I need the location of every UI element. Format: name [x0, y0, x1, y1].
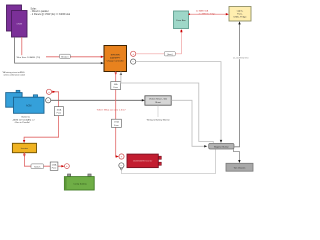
arrow down into gold inverter top	[23, 140, 25, 143]
svg-text:Batteries: Batteries	[22, 116, 32, 119]
svg-text:- AGM 12V (140Ah) x 2: - AGM 12V (140Ah) x 2	[12, 118, 35, 121]
svg-text:Negative Busbar: Negative Busbar	[214, 145, 229, 148]
arrow up into loads box bottom	[238, 21, 240, 24]
svg-text:Van Chassis: Van Chassis	[234, 167, 246, 169]
svg-text:170W: 170W	[16, 24, 23, 26]
svg-text:120A: 120A	[52, 164, 57, 167]
terminal circle inverter -	[119, 163, 124, 168]
svg-text:Fans,: Fans,	[237, 13, 243, 15]
solar panel PV2 (back)	[7, 5, 22, 31]
svg-text:- Run in Parallel: - Run in Parallel	[14, 121, 30, 124]
svg-text:Victron Smart - 500: Victron Smart - 500	[149, 98, 168, 101]
svg-text:TODO: What size wire is this?: TODO: What size wire is this?	[97, 109, 127, 112]
arrow into loads box	[226, 13, 229, 15]
label: wire gauge on loads return	[230, 56, 253, 60]
wire fuse box to loads (red)	[189, 13, 227, 15]
note: AWG annotation	[2, 71, 26, 77]
svg-text:Lights,: Lights,	[237, 9, 244, 12]
solar panel PV1 (front)	[12, 11, 28, 38]
svg-text:Shunt: Shunt	[155, 101, 161, 104]
arrow into busbar left	[204, 145, 207, 147]
wire BAT- controller to busbar (light gray)	[121, 72, 213, 143]
note: solar panel annotation	[31, 7, 71, 16]
svg-text:Solar:: Solar:	[31, 7, 37, 10]
svg-text:Charge Controller: Charge Controller	[107, 60, 125, 63]
negative busbar (gray rounded)	[209, 143, 234, 149]
AGM battery B2 (back, blue)	[6, 90, 22, 107]
1500W inverter (dark red box)	[127, 154, 161, 168]
smart shunt (gray box)	[145, 96, 171, 105]
arrow down from inverter - terminal	[120, 168, 122, 171]
svg-text:Fuse Box: Fuse Box	[176, 20, 186, 22]
wire PV+ (red, panel to charge controller)	[22, 37, 102, 57]
camp battery (green)	[64, 174, 94, 190]
svg-text:+: +	[121, 155, 123, 159]
svg-text:+: +	[48, 90, 50, 94]
svg-text:AGM: AGM	[26, 104, 31, 107]
wire loads return to busbar (gray)	[234, 24, 239, 147]
arrow into controller PV-	[101, 62, 104, 64]
svg-text:EPEVER: EPEVER	[111, 55, 120, 57]
svg-text:100A: 100A	[57, 108, 62, 111]
arrow down into busbar top	[220, 140, 222, 143]
arrow BAT- up into controller bottom	[120, 72, 122, 75]
svg-text:USBs, Fridge: USBs, Fridge	[233, 15, 247, 18]
svg-text:40A MPPT: 40A MPPT	[110, 57, 121, 60]
loads box (yellow): lights fans usbs fridge	[229, 7, 251, 22]
svg-text:+: +	[66, 164, 68, 168]
svg-text:* All wiring sizes in AWG: * All wiring sizes in AWG	[2, 71, 25, 74]
fuse box F1 on BAT+ wire	[111, 82, 121, 90]
arrow into camp battery +	[61, 165, 64, 167]
wire LOAD+ (red, to fuse box)	[136, 30, 182, 54]
wire smart shunt to busbar (light gray)	[171, 100, 205, 146]
wire LOAD- (light gray, to negative busbar)	[136, 62, 221, 142]
120A fuse box	[50, 162, 58, 170]
junction dot at fuse box right	[189, 13, 191, 15]
arrow into inverter + terminal	[116, 155, 119, 157]
junction + arrow below gold inverter	[24, 153, 26, 155]
terminal circle AGM-	[46, 98, 51, 103]
svg-text:Breaker: Breaker	[61, 55, 69, 58]
fuse box on AGM+ wire	[54, 107, 63, 116]
svg-text:2x MAXI 50A: 2x MAXI 50A	[196, 10, 209, 13]
svg-text:unless otherwise noted: unless otherwise noted	[4, 74, 26, 77]
svg-text:−: −	[47, 99, 49, 103]
svg-text:Switch: Switch	[34, 165, 41, 168]
red fuse annotation text	[196, 10, 216, 16]
wire gold inverter to camp battery + (red)	[24, 152, 62, 166]
svg-text:[fuse]: [fuse]	[167, 54, 173, 56]
svg-text:175A: 175A	[114, 121, 119, 124]
terminal circle camp battery +	[65, 164, 70, 169]
wire AGM- to smart shunt (dark gray)	[51, 99, 143, 101]
label: wire size on PV+ wire	[16, 55, 46, 59]
fuse box F2 on BAT+ wire	[112, 119, 122, 127]
svg-text:- Wired in parallel: - Wired in parallel	[31, 10, 49, 13]
van chassis (dark gray box)	[226, 163, 253, 171]
terminal circle LOAD- (controller right)	[131, 59, 136, 64]
arrow down into van chassis	[238, 160, 240, 163]
wire inverter ground to busbar bottom (light gray)	[121, 149, 215, 173]
svg-text:Wiring to Battery Monitor: Wiring to Battery Monitor	[147, 119, 170, 122]
svg-text:−: −	[132, 60, 134, 64]
junction dot below fuse box	[181, 30, 183, 32]
charge controller U1 (orange)	[104, 46, 127, 72]
wire AGM+ to inverter (red)	[24, 92, 59, 142]
arrow into smart shunt left	[142, 99, 145, 101]
fuse label on LOAD+ wire	[164, 52, 175, 56]
svg-text:- 2 Panels @ 170W (2s) == 340W: - 2 Panels @ 170W (2s) == 340W total	[31, 13, 71, 16]
svg-text:−: −	[120, 164, 122, 168]
wire PV- (gray, panel to charge controller)	[15, 37, 102, 63]
svg-text:Camp battery: Camp battery	[73, 182, 87, 185]
svg-text:Inverter: Inverter	[21, 147, 29, 150]
wire BAT+ controller to inverter + (red vertical)	[116, 72, 118, 157]
svg-text:+: +	[132, 52, 134, 56]
fuse box F0 (teal)	[174, 11, 189, 29]
svg-text:+ 1x MINI for fridge: + 1x MINI for fridge	[198, 12, 217, 15]
arrow up into teal fuse box	[180, 29, 182, 32]
connector to shunt label	[157, 105, 159, 117]
terminal circle LOAD+ (controller right)	[131, 51, 136, 56]
svg-text:[6-14 AWG] Wire: [6-14 AWG] Wire	[233, 57, 249, 60]
svg-text:Wire Size: 10 AWG (7'0): Wire Size: 10 AWG (7'0)	[17, 56, 41, 59]
arrow into controller PV+	[101, 56, 104, 58]
arrow BAT+ below controller (red, down)	[115, 72, 117, 75]
wire busbar to van chassis	[233, 149, 239, 162]
switch label box	[31, 164, 44, 169]
terminal circle inverter + (red)	[119, 154, 124, 159]
svg-text:1500/3000W Inverter: 1500/3000W Inverter	[133, 160, 153, 163]
breaker label box on PV+ wire	[60, 54, 71, 58]
AGM battery B1 (front, blue)	[14, 95, 45, 113]
terminal circle AGM+	[46, 89, 51, 94]
note: batteries annotation	[12, 116, 35, 125]
inverter (gold box)	[12, 143, 36, 152]
arrow + junction on AGM+ wire	[52, 91, 55, 93]
